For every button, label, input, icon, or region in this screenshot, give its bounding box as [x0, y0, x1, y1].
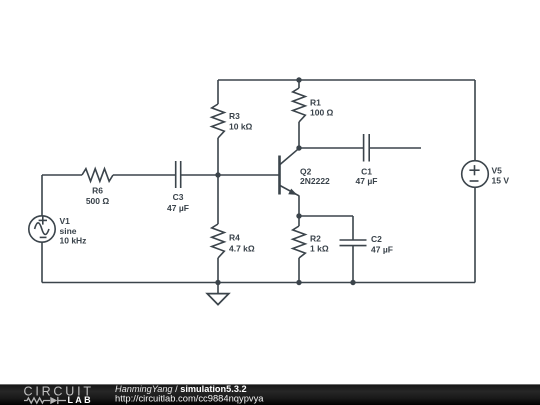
svg-text:47 µF: 47 µF — [167, 203, 189, 213]
svg-text:http://circuitlab.com/cc9884nq: http://circuitlab.com/cc9884nqypvya — [115, 393, 264, 404]
svg-text:R1: R1 — [310, 98, 321, 108]
svg-text:V5: V5 — [492, 166, 503, 176]
svg-text:500 Ω: 500 Ω — [86, 196, 110, 206]
svg-text:C2: C2 — [371, 234, 382, 244]
wire bottom ground rail — [42, 282, 475, 284]
svg-text:R6: R6 — [92, 186, 103, 196]
wire top rail left segment — [218, 79, 299, 81]
node emitter junction — [296, 213, 301, 218]
svg-text:R3: R3 — [229, 111, 240, 121]
resistor R1 — [293, 80, 334, 148]
wire node B to Q2 base — [218, 174, 279, 176]
node B junction (C3 / R3 / R4 / base) — [215, 172, 220, 177]
wire node E to C2 branch — [299, 215, 353, 217]
svg-text:10 kΩ: 10 kΩ — [229, 122, 253, 132]
svg-text:sine: sine — [60, 226, 77, 236]
resistor R6 — [82, 169, 113, 206]
svg-text:2N2222: 2N2222 — [300, 176, 330, 186]
capacitor C3 — [167, 161, 189, 213]
wire right rail top (to V5 +) — [474, 80, 476, 161]
wire right rail bottom (V5 - to ground rail) — [474, 187, 476, 282]
capacitor C1 — [356, 134, 378, 186]
svg-text:V1: V1 — [60, 216, 71, 226]
capacitor C2 — [340, 216, 393, 283]
svg-text:47 µF: 47 µF — [356, 176, 378, 186]
svg-text:47 µF: 47 µF — [371, 245, 393, 255]
footer bar — [0, 384, 540, 405]
node collector junction — [296, 145, 301, 150]
svg-text:4.7 kΩ: 4.7 kΩ — [229, 244, 255, 254]
svg-text:LAB: LAB — [68, 395, 93, 405]
voltage source V1 (sine) — [29, 216, 87, 246]
svg-text:R2: R2 — [310, 234, 321, 244]
wire R6 to C3 — [113, 174, 176, 176]
svg-text:C1: C1 — [361, 167, 372, 177]
voltage source V5 (battery) — [462, 161, 510, 188]
CircuitLab logo schematic line (resistor + diode) — [24, 397, 66, 404]
transistor Q2 — [280, 148, 331, 196]
wire C1 to output — [369, 147, 421, 149]
svg-text:100 Ω: 100 Ω — [310, 108, 334, 118]
wire collector node to C1 — [299, 147, 364, 149]
svg-text:C3: C3 — [173, 192, 184, 202]
node ground rail / R2 junction — [296, 280, 301, 285]
wire V1 to R6 — [42, 174, 82, 176]
svg-text:R4: R4 — [229, 233, 240, 243]
node junction top rail / R1 — [296, 77, 301, 82]
wire left rail top (V1 + up) — [41, 175, 43, 216]
node ground rail / C2 junction — [350, 280, 355, 285]
wire C3 to node B — [181, 174, 218, 176]
node ground rail / R4 junction — [215, 280, 220, 285]
wire left rail bottom (V1 - down) — [41, 242, 43, 282]
resistor R2 — [293, 216, 329, 283]
wire top rail right segment — [299, 79, 475, 81]
wire Q2 emitter to node E — [298, 196, 300, 217]
svg-text:10 kHz: 10 kHz — [60, 236, 87, 246]
svg-text:15 V: 15 V — [492, 176, 510, 186]
ground — [207, 283, 229, 305]
svg-text:Q2: Q2 — [300, 167, 312, 177]
svg-text:1 kΩ: 1 kΩ — [310, 244, 329, 254]
resistor R3 — [212, 80, 253, 175]
resistor R4 — [212, 175, 255, 283]
